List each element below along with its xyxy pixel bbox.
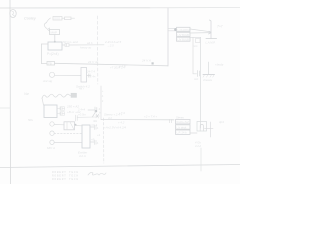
box radio [48,42,62,50]
cap C1 [57,107,65,110]
wire [55,74,81,76]
connector in marks [170,119,172,122]
box MAP [50,30,60,35]
connector strip top row1 [177,27,191,31]
cap C2 [57,112,65,115]
wire [71,17,75,19]
wire [54,142,82,144]
connector strip bottom row2 [176,125,191,129]
wire [77,116,95,118]
feeder vertical right [167,8,169,66]
box tuner [44,105,57,118]
arrow [208,31,211,34]
coil squiggle [42,94,71,98]
wire row1 to lamp line [190,29,211,32]
connector strip bottom row1 [176,120,191,124]
switch S1 [95,107,97,112]
node dot [54,41,56,43]
lamp L1 [49,72,54,77]
dashed bus 1 [97,16,99,84]
wire to switch [88,109,95,111]
dashed bus 3 [103,118,105,163]
cap C6 [198,71,200,77]
main vertical B [200,37,202,128]
wire [54,124,64,126]
wire [62,17,65,19]
pin circle 3 [50,140,54,144]
cap C5 [95,140,97,145]
wire [87,75,91,77]
connector strip bottom row3 [176,130,191,134]
wire row2 to lamp line [190,32,211,34]
connector strip top row2 [177,32,191,36]
wire out 2 [90,141,94,143]
fold tick [0,107,10,109]
fuse chain wire [47,18,51,23]
capacitor C8 plate [205,122,214,137]
capacitor C7 slot [200,124,203,131]
junction star [96,114,100,118]
dashed wire [54,133,82,135]
wire out 1 [90,126,94,128]
connector strip top row3 [177,37,191,41]
wire left of radio [42,43,49,45]
signature [88,172,106,175]
capacitor C7 case [197,122,207,132]
cap C3 [76,115,78,121]
fuse F1 [53,17,62,21]
box FB [47,62,55,66]
pin circle 1 [50,122,54,126]
chassis ground [208,62,210,74]
wire [42,98,44,105]
stub wires [168,28,177,31]
pin circle 2 [50,131,54,135]
connector bars [65,44,69,47]
wire [54,35,56,43]
border top [0,7,150,9]
wire [75,125,83,127]
antenna plug [71,93,77,97]
wire long to right [69,44,104,46]
amp block [82,125,90,148]
wire [62,44,65,46]
sheet number circle [10,10,16,18]
wire main horizontal [42,63,48,65]
wire vertical [41,44,43,64]
diode D1 [48,28,50,31]
border left [9,0,12,184]
connector ticks [89,74,91,77]
bus 2 vertical [100,86,102,120]
relay K1 [81,68,87,83]
node mark [152,62,154,64]
faint vertical lower [200,148,202,171]
box mixer [64,122,75,130]
wire row3 down [190,36,201,38]
wire S-curve [44,23,47,29]
ground bar lamp [206,38,217,40]
long wire to stereo strip [101,119,174,121]
border bottom [0,165,240,168]
branch vertical A [193,37,197,74]
lamp feed vertical [210,20,212,39]
junction blob [174,28,177,31]
cap on B [196,39,201,43]
wire into cap [190,132,197,134]
cap C4 [95,125,97,130]
connector P1 [65,17,72,20]
